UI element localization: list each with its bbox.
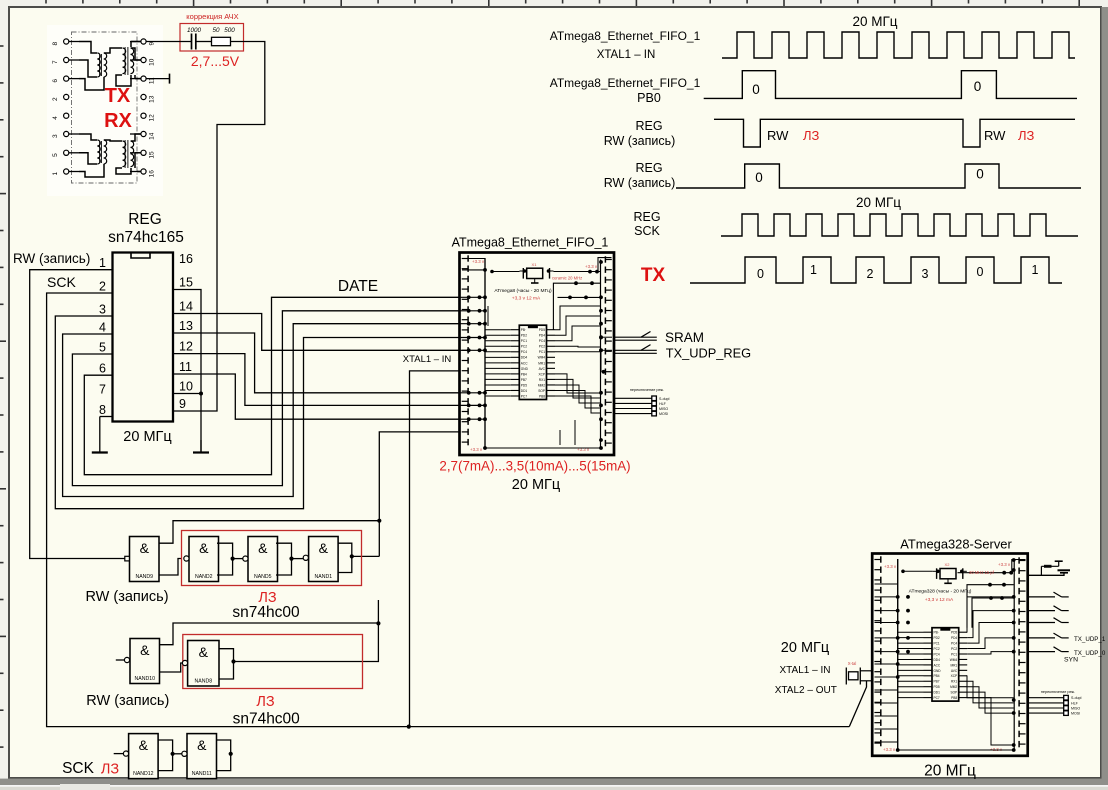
svg-text:SCK: SCK <box>62 760 95 777</box>
wire row2 feedback to NAND8 output <box>234 623 379 661</box>
U1 pin numbers right <box>179 252 193 411</box>
ATmega8 module border <box>460 253 615 456</box>
svg-text:TX_UDP_0: TX_UDP_0 <box>1074 650 1106 657</box>
svg-text:10: 10 <box>149 58 156 66</box>
svg-text:TX_UDP_1: TX_UDP_1 <box>1074 636 1106 643</box>
NAND9 output lower stub to NAND2 <box>160 559 182 576</box>
ATmega8 inner right rail <box>600 260 602 449</box>
svg-text:REG: REG <box>635 161 662 175</box>
svg-text:+3.3 v: +3.3 v <box>884 564 897 569</box>
ATmega328 inner right rail <box>1013 561 1015 749</box>
svg-text:ACC: ACC <box>934 663 941 667</box>
svg-text:PC1: PC1 <box>539 350 545 354</box>
delay line box row2 <box>183 635 363 689</box>
svg-text:PB4: PB4 <box>934 674 940 678</box>
svg-text:NAND1: NAND1 <box>315 574 333 580</box>
svg-text:ATmega328-Server: ATmega328-Server <box>900 537 1012 552</box>
svg-text:переключение реж.: переключение реж. <box>1041 690 1075 694</box>
svg-text:20 МГц: 20 МГц <box>781 640 829 656</box>
svg-text:PC1: PC1 <box>934 642 940 646</box>
svg-text:PC2: PC2 <box>539 345 545 349</box>
svg-text:12: 12 <box>179 340 193 354</box>
junction clock rail XTAL1 <box>407 725 411 729</box>
ATmega328 programming header J2 <box>1028 695 1082 715</box>
svg-text:0: 0 <box>752 82 760 97</box>
svg-text:NAND8: NAND8 <box>195 679 213 685</box>
svg-text:+3.3 v: +3.3 v <box>883 747 896 752</box>
svg-text:sn74hc00: sn74hc00 <box>233 711 301 728</box>
svg-text:1: 1 <box>1032 263 1039 277</box>
T1 right pins <box>130 39 156 177</box>
svg-text:ATmega8 (часы - 20 МГц): ATmega8 (часы - 20 МГц) <box>494 288 552 294</box>
wire U1 pin10 stub <box>173 393 201 395</box>
svg-text:8: 8 <box>99 403 106 417</box>
svg-text:20 МГц: 20 МГц <box>924 763 976 780</box>
svg-text:RW (запись): RW (запись) <box>604 176 676 190</box>
svg-text:6: 6 <box>99 362 106 376</box>
svg-text:HLF: HLF <box>659 402 667 406</box>
svg-text:PB4: PB4 <box>521 372 527 376</box>
svg-text:REG: REG <box>633 210 660 224</box>
svg-text:RW (запись): RW (запись) <box>86 693 169 709</box>
svg-text:ACC: ACC <box>521 361 528 365</box>
svg-text:+3.3 v: +3.3 v <box>472 259 485 264</box>
wire correction box to REG pin 9 supply <box>173 42 265 412</box>
svg-text:20 МГц: 20 МГц <box>856 195 901 210</box>
svg-text:&: & <box>197 737 207 753</box>
svg-text:3: 3 <box>99 303 106 317</box>
svg-text:20 МГц: 20 МГц <box>512 477 560 493</box>
wire SCK net pin2 to clock rail <box>47 293 850 727</box>
svg-text:2: 2 <box>99 280 106 294</box>
waveform REG RW write pulse <box>676 164 1081 188</box>
svg-text:PC4: PC4 <box>539 339 545 343</box>
svg-text:3: 3 <box>52 134 59 138</box>
NAND1 input bubble <box>303 555 308 560</box>
svg-text:PD5: PD5 <box>539 328 545 332</box>
NAND8 output wires <box>219 649 234 679</box>
NAND12 output wires <box>158 740 173 771</box>
svg-text:X2: X2 <box>945 562 951 567</box>
svg-text:PB8: PB8 <box>539 394 545 398</box>
svg-text:50: 50 <box>212 27 220 34</box>
NAND12 input bubble <box>123 751 128 756</box>
svg-text:коррекция АЧХ: коррекция АЧХ <box>186 12 238 21</box>
svg-text:GND: GND <box>521 367 529 371</box>
svg-text:+3.3 v: +3.3 v <box>998 562 1011 567</box>
wire DATE bit1 pin5 loop <box>72 311 459 486</box>
svg-text:0: 0 <box>974 79 982 94</box>
T1 TX channel transformer TR1 <box>123 48 126 74</box>
svg-text:PB8: PB8 <box>951 696 957 700</box>
svg-text:SOP: SOP <box>538 389 545 393</box>
svg-text:PD2: PD2 <box>521 334 527 338</box>
svg-text:15: 15 <box>179 276 193 290</box>
svg-text:PC1: PC1 <box>521 339 527 343</box>
svg-text:переключение реж.: переключение реж. <box>630 388 664 392</box>
svg-text:PD5: PD5 <box>951 631 957 635</box>
svg-text:MR1: MR1 <box>538 361 545 365</box>
junction row2 feedback <box>376 621 380 625</box>
nand gate NAND12 <box>129 734 159 779</box>
svg-text:20 МГц: 20 МГц <box>123 429 171 445</box>
wire XTAL1 from clock rail <box>410 371 460 727</box>
wire DATE bit5 pin12 <box>173 354 460 406</box>
ATmega328 edge pin headers left <box>874 556 880 746</box>
svg-text:GND: GND <box>934 669 942 673</box>
svg-text:MOSI: MOSI <box>1071 712 1080 716</box>
svg-text:PC7: PC7 <box>934 696 940 700</box>
svg-text:1: 1 <box>99 256 106 270</box>
svg-text:PC1: PC1 <box>951 652 957 656</box>
NAND1 output wires <box>338 543 352 572</box>
svg-text:7: 7 <box>99 383 106 397</box>
stub row2 feedback upward <box>377 600 379 623</box>
NAND11 input bubble <box>182 751 187 756</box>
svg-text:&: & <box>199 644 209 660</box>
svg-text:0: 0 <box>755 170 763 185</box>
svg-text:MR1: MR1 <box>950 663 957 667</box>
svg-text:RX1: RX1 <box>539 378 545 382</box>
svg-text:MM2: MM2 <box>950 685 957 689</box>
svg-text:8: 8 <box>52 42 59 46</box>
wire DATE bit3 pin3 loop <box>55 316 459 509</box>
nand gate NAND5 <box>248 537 278 582</box>
svg-text:13: 13 <box>149 95 156 103</box>
ATmega328 inner left rail <box>897 559 899 750</box>
svg-text:NAND10: NAND10 <box>135 676 156 682</box>
svg-text:+3.3 v: +3.3 v <box>585 264 598 269</box>
T1 left pins <box>52 39 79 176</box>
svg-text:NAND11: NAND11 <box>192 771 212 777</box>
svg-text:&: & <box>319 540 329 556</box>
svg-text:ЛЗ: ЛЗ <box>1018 128 1035 143</box>
svg-text:MOSI: MOSI <box>659 412 668 416</box>
NAND5 input bubble <box>243 556 248 561</box>
NAND10 input bubble <box>124 657 129 662</box>
svg-text:20 MHz 15 pf: 20 MHz 15 pf <box>969 570 995 575</box>
svg-text:NAND2: NAND2 <box>195 574 213 580</box>
wire row2 feedback top <box>159 623 378 645</box>
svg-text:&: & <box>139 737 149 753</box>
ATmega8 crystal circuit <box>527 268 543 278</box>
svg-text:&: & <box>258 540 268 556</box>
nand gate NAND10 <box>130 639 160 684</box>
svg-text:+3,3 v 12 mA: +3,3 v 12 mA <box>512 296 541 302</box>
svg-text:1: 1 <box>810 263 817 277</box>
svg-text:5: 5 <box>52 153 59 157</box>
svg-text:RW (запись): RW (запись) <box>604 134 676 148</box>
svg-text:AVC: AVC <box>539 367 546 371</box>
svg-text:RX: RX <box>104 110 132 132</box>
resistor R1 50..500 <box>212 37 231 45</box>
svg-text:0: 0 <box>757 267 764 281</box>
svg-text:+3,3 v 12 mA: +3,3 v 12 mA <box>925 597 954 603</box>
NAND8 input bubble <box>182 660 187 665</box>
svg-text:&: & <box>140 540 150 556</box>
svg-text:4: 4 <box>99 321 106 335</box>
ground under U1 pin15 rail <box>200 440 202 453</box>
ATmega328 crystal circuit <box>940 569 956 579</box>
svg-text:PB7: PB7 <box>934 680 940 684</box>
svg-text:SCK: SCK <box>634 224 660 238</box>
svg-text:RW (запись): RW (запись) <box>13 251 90 266</box>
svg-text:NAND12: NAND12 <box>133 771 154 777</box>
svg-text:DATE: DATE <box>338 278 378 295</box>
svg-text:sn74hc165: sn74hc165 <box>108 229 184 246</box>
svg-text:10: 10 <box>179 380 193 394</box>
NAND12 input stub <box>114 753 124 755</box>
svg-text:XTAL1 – IN: XTAL1 – IN <box>403 354 452 365</box>
wire DATE bit4 pin11 <box>173 374 460 419</box>
svg-text:1: 1 <box>52 172 59 176</box>
svg-text:DD4: DD4 <box>934 658 941 662</box>
svg-text:&: & <box>140 642 150 658</box>
NAND10 output lower stub to NAND8 <box>160 663 183 672</box>
T1 RX channel transformer TR2 <box>123 141 126 167</box>
svg-text:XTAL1 – IN: XTAL1 – IN <box>597 49 656 61</box>
waveform REG SCK clock <box>721 214 1078 236</box>
waveform REG RW strobe <box>714 119 1075 147</box>
svg-text:MISO: MISO <box>1071 707 1080 711</box>
wire DATE bit2 pin4 loop <box>63 324 460 497</box>
svg-text:DD4: DD4 <box>521 356 528 360</box>
svg-text:sn74hc00: sn74hc00 <box>232 604 300 621</box>
svg-text:12: 12 <box>149 114 156 122</box>
svg-text:PC4: PC4 <box>934 652 940 656</box>
svg-text:13: 13 <box>179 319 193 333</box>
U1 pin numbers left <box>99 256 106 417</box>
svg-text:ЛЗ: ЛЗ <box>101 762 120 778</box>
svg-text:TX: TX <box>641 265 666 286</box>
waveform PB0 <box>704 71 1077 99</box>
svg-text:PD4: PD4 <box>539 334 545 338</box>
nand gate NAND1 <box>309 537 339 582</box>
ATmega8 inner left rail <box>484 258 486 449</box>
svg-text:PD5: PD5 <box>521 383 527 387</box>
terminator on T1 pin 11 <box>146 78 169 80</box>
wire T1 pin9 to capacitor <box>146 41 191 43</box>
svg-text:RX1: RX1 <box>951 680 957 684</box>
svg-text:0: 0 <box>976 167 984 182</box>
svg-text:3: 3 <box>922 267 929 281</box>
svg-text:4: 4 <box>52 116 59 120</box>
nand gate NAND9 <box>130 537 160 582</box>
svg-text:0: 0 <box>977 265 984 279</box>
svg-text:PC2: PC2 <box>934 647 940 651</box>
svg-text:PC2: PC2 <box>521 345 527 349</box>
junction delay net <box>377 519 381 523</box>
svg-text:PC7: PC7 <box>521 394 527 398</box>
junction pin10 ground rail <box>199 392 203 396</box>
svg-text:SCK: SCK <box>47 274 76 290</box>
svg-text:5: 5 <box>99 341 106 355</box>
T1 TX channel choke L1 <box>97 53 100 77</box>
ground at U1 pin 8 <box>100 416 113 418</box>
svg-text:9: 9 <box>179 397 186 411</box>
nand gate NAND11 <box>187 734 217 779</box>
NAND5 output wires <box>276 543 292 575</box>
ATmega8 right rail to SRAM pins <box>601 336 612 338</box>
wire delay net to NAND1 output <box>352 555 380 557</box>
svg-text:11: 11 <box>179 360 192 374</box>
svg-text:X1: X1 <box>532 262 538 267</box>
NAND2 input bubble <box>184 556 189 561</box>
svg-text:PC4: PC4 <box>521 350 527 354</box>
svg-text:RW: RW <box>984 128 1006 143</box>
NAND11 output wires <box>217 740 231 771</box>
svg-text:WM4: WM4 <box>950 658 958 662</box>
svg-text:REG: REG <box>635 119 662 133</box>
svg-text:ЛЗ: ЛЗ <box>803 128 820 143</box>
ATmega328 internal wiring <box>875 558 1016 752</box>
svg-text:REG: REG <box>128 211 162 228</box>
wire clock diagonal to ATmega328 crystal <box>849 681 866 727</box>
waveform XTAL1 clock <box>722 32 1075 58</box>
wire DATE bit6 pin13 <box>173 333 460 393</box>
svg-text:PD4: PD4 <box>951 636 957 640</box>
svg-text:16: 16 <box>179 252 193 266</box>
svg-text:16: 16 <box>149 170 156 178</box>
svg-text:MISO: MISO <box>659 407 668 411</box>
ATmega328 module border <box>872 554 1027 756</box>
svg-text:XTAL2 – OUT: XTAL2 – OUT <box>775 685 837 696</box>
T1 RX channel choke L2 <box>97 140 100 164</box>
wire DATE bit7 pin14 <box>173 314 460 351</box>
svg-text:14: 14 <box>149 132 156 140</box>
svg-text:WM4: WM4 <box>538 356 546 360</box>
wire capacitor to resistor <box>196 41 212 43</box>
svg-text:PB·: PB· <box>934 631 939 635</box>
svg-text:DD1: DD1 <box>934 691 941 695</box>
svg-text:SRAM: SRAM <box>665 330 704 345</box>
ATmega8 edge pin headers left <box>462 255 468 445</box>
ATmega8 MCU IC body <box>519 325 546 399</box>
svg-text:PB7: PB7 <box>521 378 527 382</box>
svg-text:AVC: AVC <box>951 669 958 673</box>
svg-text:NAND9: NAND9 <box>135 574 153 580</box>
wire PB0 delay net to ATmega8 <box>379 432 459 557</box>
svg-text:2: 2 <box>867 267 874 281</box>
T1 TX channel wires <box>79 42 97 54</box>
svg-text:15: 15 <box>149 151 156 159</box>
waveform TX data <box>690 257 1062 283</box>
svg-text:ATmega8_Ethernet_FIFO_1: ATmega8_Ethernet_FIFO_1 <box>550 76 701 90</box>
wire delay net to NAND9 output <box>160 521 380 544</box>
junction NAND8 output <box>231 659 235 663</box>
shift register U1 sn74hc165 body <box>113 253 174 422</box>
NAND9 input port <box>125 556 130 561</box>
svg-text:500: 500 <box>224 27 235 34</box>
svg-text:6: 6 <box>52 79 59 83</box>
svg-text:SYN: SYN <box>1064 657 1078 664</box>
svg-text:PB·: PB· <box>521 328 526 332</box>
capacitor C1 1000 <box>191 34 193 50</box>
ATmega328 edge pin headers right <box>1019 557 1025 747</box>
nand gate NAND8 <box>188 641 219 687</box>
svg-text:RW: RW <box>767 128 789 143</box>
TX_UDP_REG output wire with switch <box>614 349 657 351</box>
ATmega328 reset pull circuit <box>1028 573 1064 575</box>
svg-text:1000: 1000 <box>187 27 202 34</box>
ATmega8 edge pin headers right <box>605 256 611 446</box>
svg-text:PB0: PB0 <box>637 91 661 105</box>
ATmega8 MCU IC pins <box>511 328 555 398</box>
junction NAND11 output <box>229 752 233 756</box>
svg-text:+3.3 v: +3.3 v <box>470 447 483 452</box>
svg-text:2: 2 <box>52 97 59 101</box>
delay line box row1 <box>182 531 362 586</box>
svg-text:ЛЗ: ЛЗ <box>256 694 275 710</box>
svg-text:ceramic 20 MHz: ceramic 20 MHz <box>552 276 582 281</box>
wire RW net pin1 to NAND9 <box>30 270 125 559</box>
svg-text:14: 14 <box>179 300 193 314</box>
ATmega328 MCU IC body <box>932 628 959 701</box>
svg-text:HLF: HLF <box>1071 701 1079 705</box>
nand gate NAND2 <box>189 537 219 582</box>
svg-text:MM2: MM2 <box>538 383 545 387</box>
svg-text:S-dupl: S-dupl <box>1071 696 1082 700</box>
svg-text:2,7...5V: 2,7...5V <box>191 53 240 69</box>
svg-text:PD2: PD2 <box>934 636 940 640</box>
svg-text:DD1: DD1 <box>521 389 528 393</box>
svg-text:NAND5: NAND5 <box>254 574 272 580</box>
ATmega328 right port wires <box>1028 592 1069 652</box>
transformer module T1 outline <box>72 32 138 183</box>
svg-text:&: & <box>199 540 209 556</box>
svg-text:20 МГц: 20 МГц <box>852 14 897 29</box>
svg-text:2,7(7mA)...3,5(10mA)...5(15mA): 2,7(7mA)...3,5(10mA)...5(15mA) <box>439 459 630 474</box>
ATmega8 programming header J1 <box>614 396 670 416</box>
svg-text:7: 7 <box>52 60 59 64</box>
ATmega328 left crystal X3 <box>860 670 872 672</box>
SRAM output wire with switch <box>614 336 657 338</box>
svg-text:XTAL1 – IN: XTAL1 – IN <box>780 665 831 676</box>
svg-text:TX_UDP_REG: TX_UDP_REG <box>666 346 751 361</box>
svg-text:PC4: PC4 <box>951 642 957 646</box>
NAND10 input stub <box>116 659 125 661</box>
svg-text:XCP: XCP <box>951 674 958 678</box>
svg-text:XCP: XCP <box>538 372 545 376</box>
svg-text:S-dupl: S-dupl <box>659 397 670 401</box>
svg-text:TX: TX <box>105 85 131 107</box>
ATmega328 MCU IC pins <box>924 631 968 700</box>
svg-text:PD5: PD5 <box>934 685 940 689</box>
transformer module T1 background <box>47 25 163 196</box>
svg-text:X-tal: X-tal <box>848 661 857 666</box>
svg-text:ATmega328 (часы - 20 МГц): ATmega328 (часы - 20 МГц) <box>909 589 972 595</box>
svg-text:ATmega8_Ethernet_FIFO_1: ATmega8_Ethernet_FIFO_1 <box>452 236 609 250</box>
ATmega8 internal wiring <box>460 259 606 450</box>
wire DATE bit0 pin6 loop <box>84 297 459 474</box>
svg-text:SOP: SOP <box>950 691 957 695</box>
correction box outline <box>180 24 244 52</box>
svg-text:ATmega8_Ethernet_FIFO_1: ATmega8_Ethernet_FIFO_1 <box>550 29 701 43</box>
T1 RX channel wires <box>79 134 97 140</box>
wire U1 pin15 to ground rail <box>173 290 201 453</box>
svg-text:PC2: PC2 <box>951 647 957 651</box>
NAND2 output wires <box>217 543 233 575</box>
junction NAND1 output <box>350 554 354 558</box>
svg-text:RW (запись): RW (запись) <box>85 589 168 605</box>
